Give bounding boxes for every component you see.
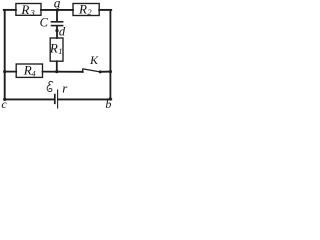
svg-text:2: 2: [87, 7, 92, 17]
junction node below R1: [55, 70, 58, 73]
battery EMF cell: long thin plate: [57, 90, 59, 108]
node d: [55, 24, 66, 38]
internal resistance r label: [62, 81, 68, 96]
wire middle left segment: [5, 71, 17, 73]
resistor R1: [49, 38, 63, 61]
wire right vertical: [109, 10, 111, 100]
svg-text:a: a: [54, 0, 61, 10]
svg-text:4: 4: [31, 68, 36, 78]
wire R1 to middle wire: [56, 61, 58, 71]
wire top horizontal left segment: [4, 9, 16, 11]
junction node on left wire: [3, 70, 6, 73]
wire top horizontal middle segment: [41, 9, 73, 11]
svg-text:b: b: [105, 97, 111, 110]
battery EMF cell: short thick plate: [54, 95, 56, 104]
wire middle segment R4 to switch: [43, 71, 83, 73]
svg-text:3: 3: [30, 8, 35, 18]
wire left vertical (top-left corner down to c): [4, 10, 6, 100]
svg-text:r: r: [62, 81, 68, 96]
svg-text:R: R: [49, 41, 58, 56]
resistor R2: [73, 2, 99, 18]
node a: [54, 0, 61, 12]
svg-text:R: R: [20, 2, 29, 17]
wire bottom left segment (c to battery): [5, 98, 54, 100]
switch K arm and pivot: [84, 53, 102, 73]
capacitor C bottom plate: [40, 15, 63, 29]
switch K contact tick: [82, 69, 84, 72]
wire switch to right wire: [100, 71, 110, 73]
node b: [105, 97, 111, 111]
wire bottom right segment (battery to b): [58, 98, 111, 100]
svg-text:d: d: [59, 24, 66, 38]
wire capacitor to R1: [56, 26, 58, 38]
wire top horizontal right segment: [99, 9, 111, 11]
svg-text:c: c: [1, 97, 7, 110]
svg-text:K: K: [89, 53, 99, 67]
svg-text:1: 1: [58, 46, 62, 56]
resistor R3: [16, 2, 41, 18]
svg-text:C: C: [40, 15, 49, 29]
svg-text:R: R: [78, 2, 87, 17]
wire from node a down to capacitor: [56, 10, 58, 21]
resistor R4: [16, 63, 42, 79]
node c: [1, 97, 7, 111]
capacitor C top plate: [52, 21, 63, 23]
junction node on right wire at switch: [109, 70, 112, 73]
EMF script-E label: [47, 81, 53, 91]
